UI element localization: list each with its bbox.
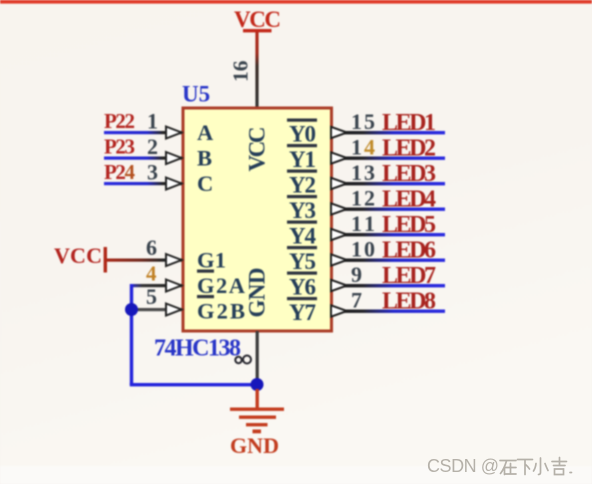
pin 7 arrow [331,305,347,316]
svg-text:B: B [197,146,212,171]
power rail VCC (top) [234,7,281,32]
pin name G2A with overbar [197,270,246,299]
svg-text:G1: G1 [197,248,226,273]
svg-text:LED6: LED6 [382,238,436,264]
svg-text:Y0: Y0 [289,122,316,147]
svg-text:9: 9 [351,262,362,287]
svg-text:C: C [197,171,213,196]
wire net LED1 (pin 15) [331,131,445,134]
svg-text:G2B: G2B [197,299,245,324]
wire pin16 to VCC [255,32,258,108]
svg-text:VCC: VCC [245,127,270,172]
svg-text:Y2: Y2 [289,173,316,198]
small marks after value label [235,356,251,364]
pin 3 arrow [166,178,182,190]
pin name Y5 with overbar [287,246,317,274]
wire to pin 4 [131,284,182,287]
wire net LED7 (pin 9) [331,284,445,287]
pin 6 arrow [166,254,182,266]
top border line [0,0,592,4]
svg-text:Y3: Y3 [289,198,316,223]
wire vertical G2A/G2B net [130,284,133,385]
pin 11 arrow [331,229,347,240]
pin name Y4 with overbar [287,221,317,249]
svg-text:CSDN @: CSDN @ [427,456,499,476]
pin name Y7 with overbar [287,297,317,325]
pin 13 arrow [331,178,347,189]
svg-text:4: 4 [146,262,157,286]
svg-text:Y5: Y5 [289,249,316,274]
pin 5 arrow [166,304,182,316]
svg-text:U5: U5 [182,82,210,107]
wire net LED5 (pin 11) [331,233,445,236]
wire net P24 (pin 3) [104,182,182,185]
svg-text:2: 2 [147,134,158,159]
pin name G2B with overbar [197,295,245,324]
svg-text:5: 5 [146,284,157,309]
power rail VCC (left) [54,243,107,273]
wire net LED8 (pin 7) [331,310,445,313]
svg-text:Y1: Y1 [289,147,316,172]
svg-text:LED2: LED2 [382,136,436,162]
wire pin 8 to ground node [256,331,259,383]
pin 2 arrow [166,152,182,164]
svg-text:Y7: Y7 [289,300,316,325]
svg-text:16: 16 [229,60,253,82]
svg-text:LED5: LED5 [382,212,436,238]
pin name Y2 with overbar [287,170,317,198]
wire net LED4 (pin 12) [331,208,445,211]
svg-text:LED7: LED7 [382,263,436,289]
wire net LED3 (pin 13) [331,182,445,185]
svg-text:GND: GND [245,268,270,318]
svg-text:7: 7 [351,288,362,313]
svg-text:1: 1 [147,109,158,134]
pin 9 arrow [331,280,347,291]
junction dot pin5 [125,303,138,316]
IC U5 body [183,108,332,331]
svg-text:LED8: LED8 [382,289,436,315]
svg-text:LED3: LED3 [382,161,436,187]
svg-text:G2A: G2A [197,273,246,298]
svg-text:Y6: Y6 [289,275,316,300]
svg-text:A: A [197,120,214,145]
svg-text:P22: P22 [104,109,135,133]
wire net P22 (pin 1) [104,131,182,134]
svg-text:GND: GND [230,433,279,458]
svg-text:LED4: LED4 [382,187,436,213]
pin 10 arrow [331,254,347,265]
pin name Y6 with overbar [287,272,317,300]
ground symbol [230,389,284,433]
pin name Y1 with overbar [287,144,317,172]
pin name Y3 with overbar [287,195,317,223]
svg-text:74HC138: 74HC138 [154,336,241,362]
pin 15 arrow [331,127,347,138]
svg-text:3: 3 [147,160,158,185]
pin name Y0 with overbar [287,119,317,147]
pin 4 arrow [166,280,182,292]
wire net LED2 (pin 14) [331,157,445,160]
svg-text:VCC: VCC [234,7,281,32]
svg-text:VCC: VCC [54,243,102,268]
wire VCC to pin 6 [107,259,182,262]
pin 1 arrow [166,127,182,139]
svg-text:6: 6 [146,235,157,260]
wire horizontal to ground node [130,383,257,386]
svg-text:LED1: LED1 [382,110,436,136]
pin 12 arrow [331,203,347,214]
pin 14 arrow [331,152,347,163]
svg-text:P24: P24 [104,160,136,184]
junction dot ground node [251,378,264,391]
watermark [427,456,572,476]
wire net LED6 (pin 10) [331,259,445,262]
svg-text:Y4: Y4 [289,224,317,249]
wire to pin 5 [131,308,182,311]
wire net P23 (pin 2) [104,157,182,160]
svg-text:P23: P23 [104,135,135,159]
